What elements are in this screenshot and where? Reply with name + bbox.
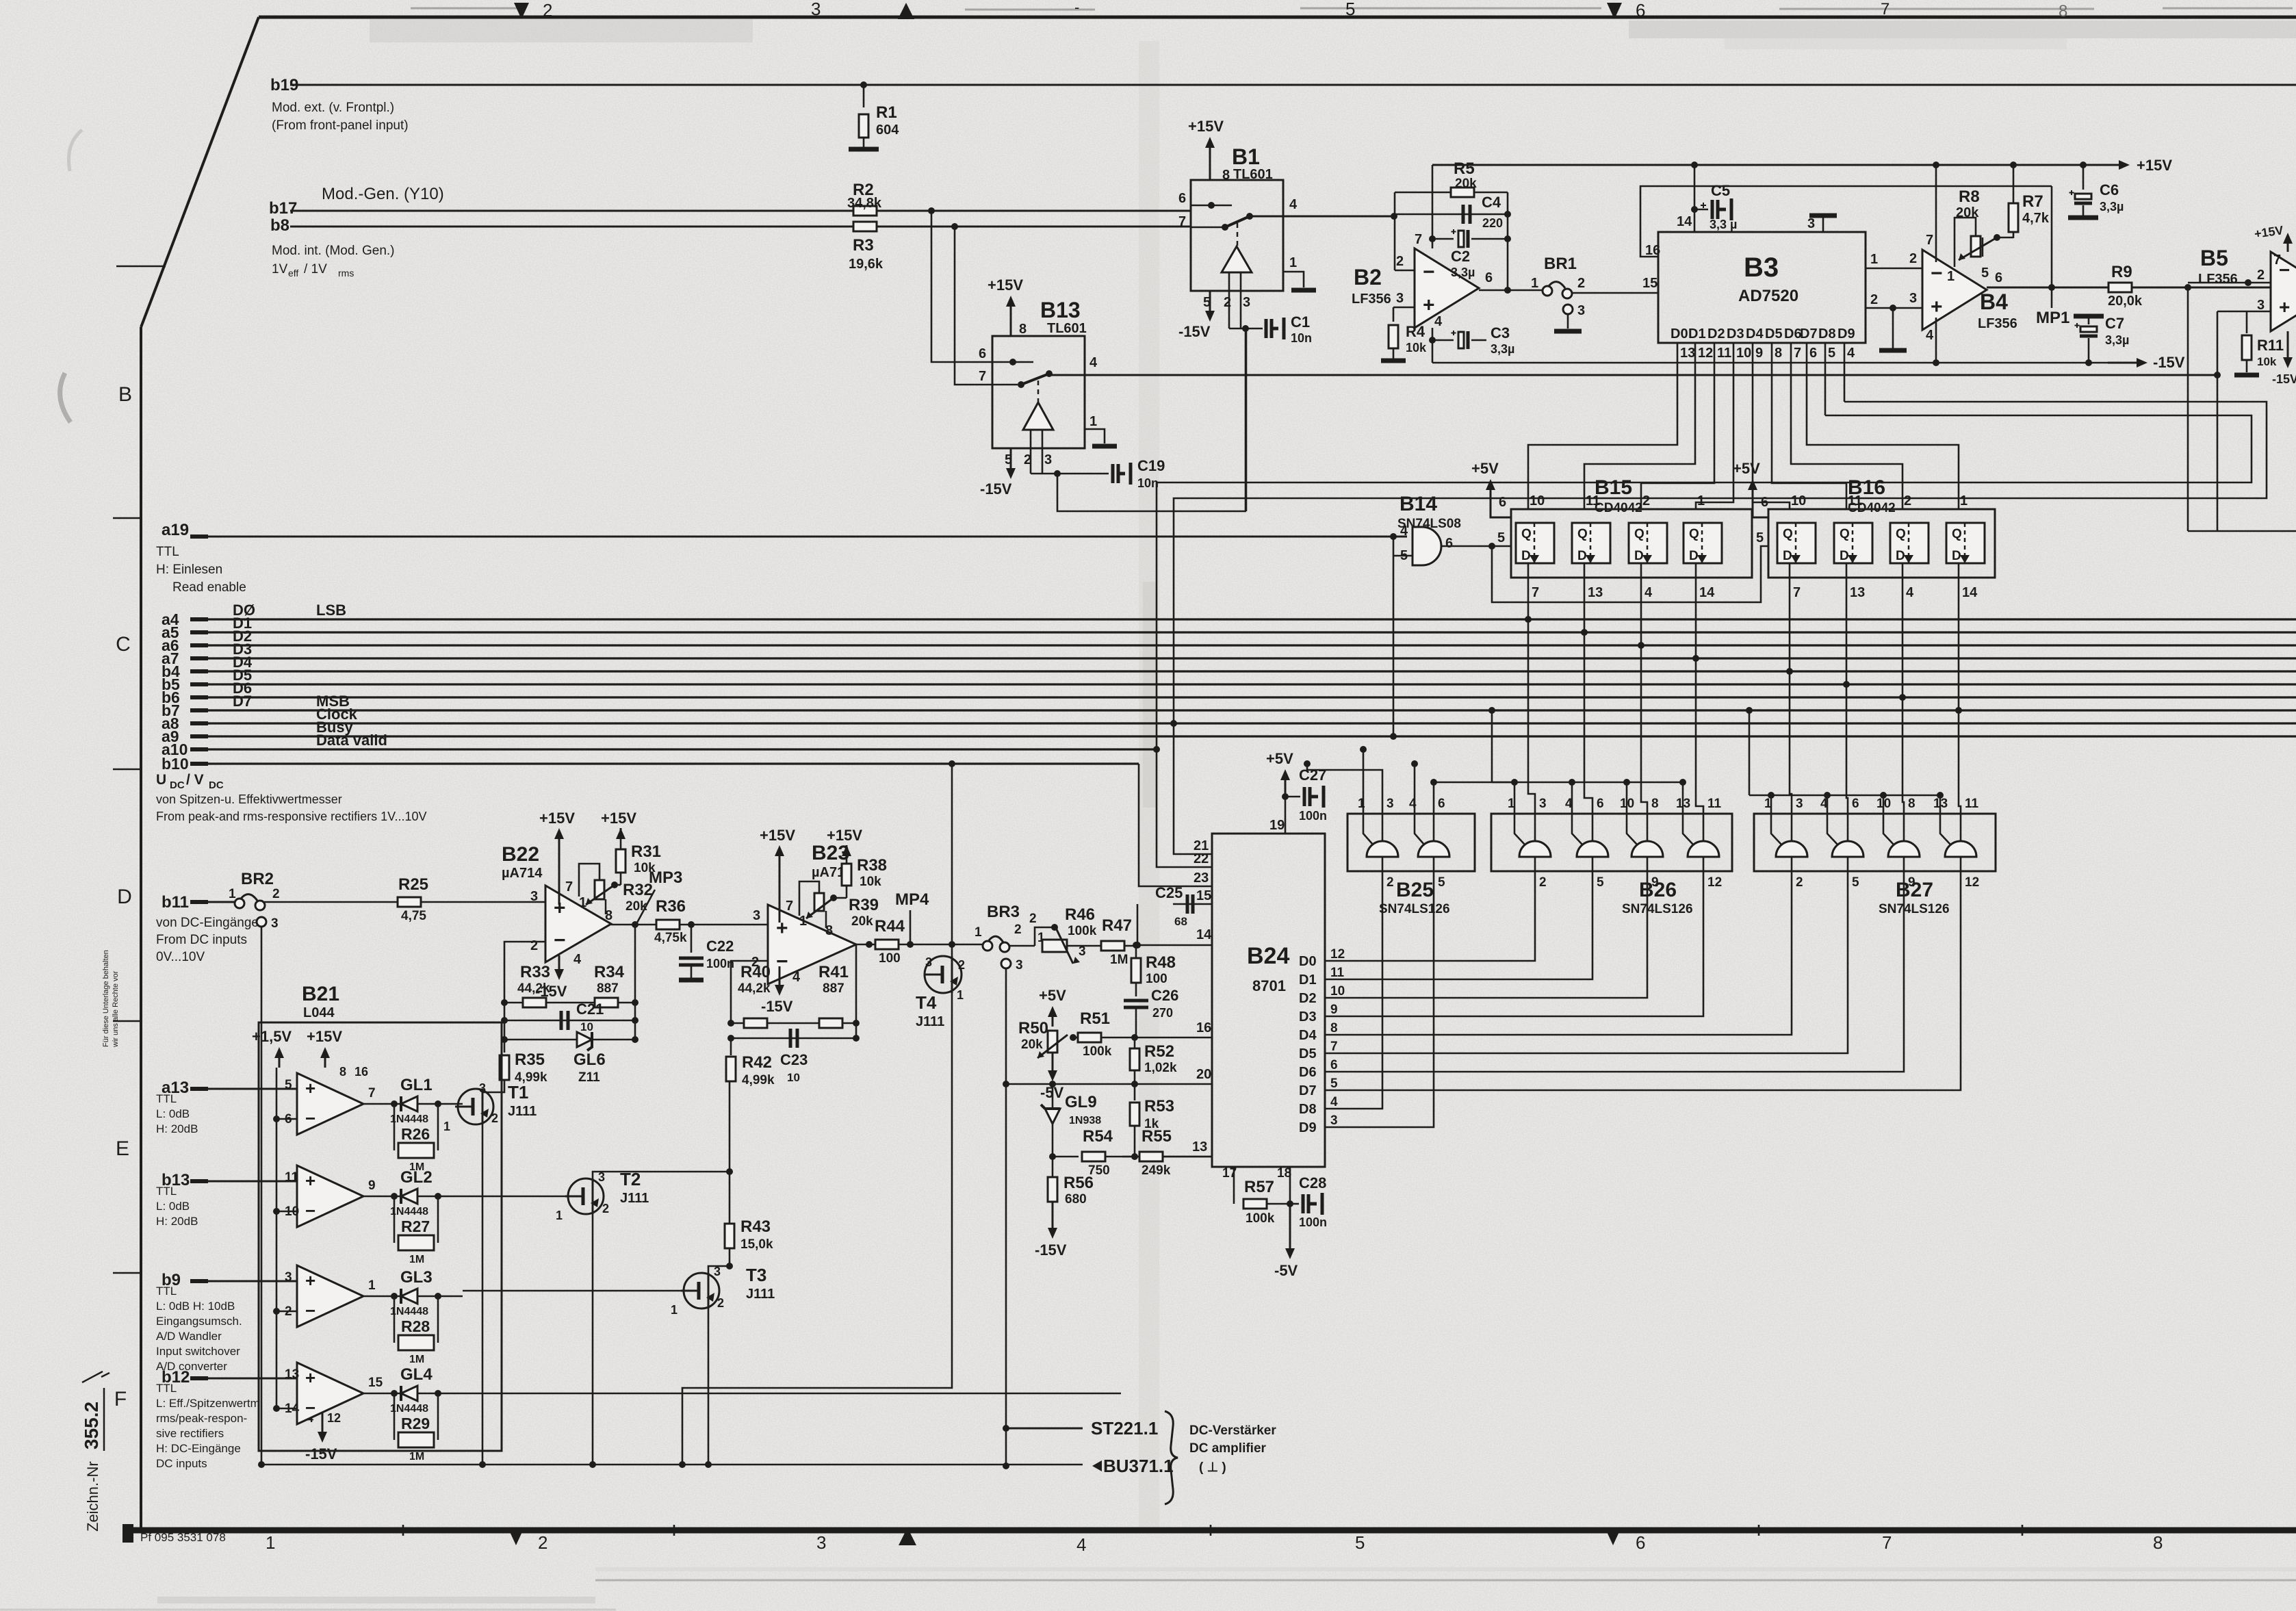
ground R4 (1393, 348, 1395, 359)
svg-text:+5V: +5V (1471, 460, 1499, 477)
svg-text:L: Eff./Spitzenwertm.: L: Eff./Spitzenwertm. (156, 1397, 263, 1410)
wire bus b7 (190, 709, 2296, 711)
bottom tick (1758, 1525, 1760, 1536)
svg-text:R28: R28 (401, 1317, 430, 1335)
resistor R44 (875, 940, 899, 949)
wire B3 D5 to B16 latch (1772, 375, 1846, 509)
svg-text:Read enable: Read enable (172, 580, 246, 595)
resistor R54 (1049, 1153, 1056, 1160)
capacitor C7 (2074, 314, 2104, 319)
capacitor C1 (1266, 319, 1272, 338)
svg-text:R9: R9 (2111, 263, 2132, 281)
svg-text:2: 2 (1796, 875, 1803, 890)
svg-text:D: D (1840, 549, 1849, 563)
svg-text:+: + (305, 1170, 315, 1191)
svg-text:7: 7 (368, 1086, 376, 1100)
junction C1 node (1242, 325, 1249, 332)
svg-text:4,75: 4,75 (401, 909, 426, 923)
svg-text:11: 11 (1330, 966, 1345, 980)
svg-text:1: 1 (443, 1120, 450, 1133)
top col marker 6 (1607, 3, 1622, 19)
wire b8 (290, 226, 1191, 228)
svg-text:12: 12 (1707, 875, 1722, 890)
svg-text:+: + (776, 917, 788, 940)
B23 output wire (856, 944, 986, 946)
svg-text:7: 7 (1926, 233, 1933, 248)
wire T3 gate from GL3 (463, 1290, 684, 1292)
svg-text:DC: DC (170, 779, 185, 791)
svg-text:6: 6 (1485, 270, 1493, 285)
svg-text:D9: D9 (1837, 326, 1855, 341)
op-amp switch B13 (992, 336, 1085, 448)
svg-text:7: 7 (786, 899, 793, 914)
svg-text:−: − (1931, 262, 1943, 285)
svg-text:D8: D8 (1818, 326, 1836, 341)
svg-text:D7: D7 (1299, 1083, 1317, 1098)
wire bottom collector (259, 1464, 1083, 1466)
svg-text:6: 6 (1438, 797, 1445, 811)
B5 pin4 (2287, 331, 2289, 360)
wire T3 source down (708, 1309, 710, 1465)
svg-text:1N4448: 1N4448 (390, 1113, 428, 1125)
svg-text:C25: C25 (1155, 884, 1183, 901)
svg-text:L044: L044 (303, 1005, 335, 1020)
svg-text:6: 6 (1852, 797, 1859, 811)
wire enable stub B27 (1883, 795, 1885, 814)
wire ST221 stub (1006, 1428, 1083, 1430)
B23 feedback left vertical (731, 961, 768, 1023)
svg-text:R47: R47 (1102, 916, 1132, 935)
svg-text:6: 6 (1636, 1532, 1645, 1553)
svg-text:1: 1 (368, 1278, 376, 1293)
row tick B/C (113, 517, 141, 519)
transistor T2 (568, 1178, 604, 1214)
svg-text:8: 8 (2153, 1532, 2163, 1553)
svg-text:4: 4 (1434, 314, 1443, 329)
svg-text:From peak-and rms-responsive r: From peak-and rms-responsive rectifiers … (156, 810, 427, 823)
svg-text:B14: B14 (1399, 493, 1437, 515)
svg-text:Q: Q (1577, 527, 1588, 541)
B25 gate 2 center input (1433, 814, 1435, 841)
svg-text:3: 3 (1243, 295, 1250, 310)
wire b13 minus input (276, 1211, 297, 1213)
svg-text:1: 1 (556, 1209, 563, 1222)
wire b17 to B13 pin6 (931, 211, 992, 362)
svg-text:T4: T4 (916, 992, 937, 1013)
svg-text:3: 3 (1796, 797, 1803, 811)
capacitor C5 (1694, 209, 1708, 211)
capacitor C28 (1290, 1203, 1299, 1205)
svg-text:D9: D9 (1299, 1120, 1317, 1135)
svg-text:887: 887 (823, 981, 844, 996)
B15 latch 1 output to bus (1527, 563, 1530, 619)
wire C1 node down to link (1245, 328, 1247, 511)
svg-text:3: 3 (1807, 216, 1815, 231)
svg-text:D: D (1689, 549, 1699, 563)
svg-text:+5V: +5V (1039, 987, 1066, 1004)
B27 gate 3 center input (1903, 814, 1905, 841)
B15 latch 3 output to bus (1640, 563, 1642, 645)
svg-text:TTL: TTL (156, 1382, 177, 1395)
svg-text:-15V: -15V (980, 480, 1012, 498)
svg-text:4: 4 (792, 970, 801, 985)
svg-text:DC inputs: DC inputs (156, 1457, 207, 1470)
wire bus a9 (190, 735, 2296, 737)
resistor R48 (1135, 945, 1137, 957)
svg-text:0V...10V: 0V...10V (156, 950, 205, 964)
svg-text:T1: T1 (508, 1082, 528, 1103)
svg-text:4,7k: 4,7k (2022, 211, 2050, 226)
B25 gate 2 output (1433, 857, 1435, 871)
wire b8 to B13 pin7 (955, 227, 1018, 385)
svg-text:R36: R36 (656, 897, 686, 916)
svg-text:20,0k: 20,0k (2108, 294, 2143, 309)
svg-text:1M: 1M (409, 1451, 424, 1462)
capacitor C4 (1463, 205, 1470, 224)
wire GL4 line up join (1120, 1315, 1122, 1393)
svg-text:20k: 20k (1455, 177, 1477, 191)
B26 gate 2 center input (1592, 814, 1594, 841)
svg-text:7: 7 (1882, 1532, 1892, 1553)
wire b19 (290, 84, 2296, 86)
svg-text:6: 6 (1636, 0, 1645, 21)
wire BR2-3 down to bottom rail (261, 927, 263, 1465)
svg-text:D: D (117, 886, 132, 908)
svg-text:B22: B22 (502, 843, 539, 866)
wire T3 drain (708, 1266, 730, 1275)
capacitor C26 (1135, 983, 1137, 996)
svg-text:wir uns alle Rechte vor: wir uns alle Rechte vor (112, 970, 120, 1048)
svg-text:14: 14 (1962, 585, 1978, 600)
wire B16 latch 2 to B27 gate 2 (1846, 684, 1848, 814)
B27 gate 3 output (1903, 857, 1905, 871)
svg-text:+: + (305, 1078, 315, 1098)
svg-text:1N4448: 1N4448 (390, 1306, 428, 1317)
svg-text:1M: 1M (409, 1354, 424, 1365)
svg-text:1: 1 (1089, 414, 1097, 429)
wire B1 pins to C1 (1229, 328, 1263, 330)
resistor R52 (1134, 1038, 1136, 1048)
svg-text:LSB: LSB (316, 602, 346, 619)
B25 buffer gate 1 (1367, 841, 1398, 857)
bottom col marker 4 triangle (899, 1528, 916, 1545)
svg-text:3,3µ: 3,3µ (1451, 266, 1475, 279)
svg-text:22: 22 (1194, 851, 1209, 866)
wire bus b5 (190, 683, 2296, 685)
svg-text:7: 7 (2273, 253, 2281, 268)
wire R35 to T1 (482, 1080, 504, 1092)
op-amp B2 (1415, 248, 1479, 328)
svg-text:+15V: +15V (988, 276, 1023, 294)
svg-text:887: 887 (597, 981, 619, 996)
wire D8 long route (1157, 415, 2252, 867)
svg-text:8: 8 (2059, 2, 2067, 21)
svg-text:-: - (1074, 0, 1079, 16)
B16 latch 4 output to bus (1958, 563, 1960, 710)
wire BR3-3 down (1005, 968, 1007, 1466)
svg-text:10: 10 (1736, 346, 1751, 361)
svg-text:23: 23 (1194, 871, 1209, 886)
capacitor C21 (504, 1020, 635, 1022)
junction ST221 node (1003, 1425, 1009, 1432)
svg-text:B21: B21 (302, 983, 339, 1005)
svg-text:D: D (1952, 549, 1961, 563)
buffer box B25 (1347, 814, 1475, 871)
svg-text:6: 6 (1178, 191, 1186, 206)
resistor R55 (1139, 1152, 1163, 1161)
svg-text:R38: R38 (857, 856, 887, 875)
svg-text:B5: B5 (2200, 246, 2228, 270)
svg-text:D: D (1896, 549, 1905, 563)
B27 gate 1 output (1791, 857, 1793, 871)
svg-text:B1: B1 (1232, 144, 1260, 169)
wire B3 D2 to B15 latch (1641, 375, 1714, 509)
svg-text:3,3µ: 3,3µ (2105, 333, 2129, 347)
svg-text:13: 13 (285, 1367, 299, 1382)
svg-text:SN74LS126: SN74LS126 (1879, 902, 1950, 916)
svg-text:Q: Q (1840, 527, 1850, 541)
B25 gate 1 input jog (1363, 814, 1373, 845)
svg-text:C26: C26 (1151, 987, 1178, 1004)
svg-text:C1: C1 (1291, 313, 1310, 331)
svg-text:12: 12 (1698, 346, 1713, 361)
wire enable rail B27 (1749, 795, 1942, 797)
svg-text:3: 3 (811, 0, 821, 19)
svg-text:R43: R43 (740, 1217, 771, 1236)
wire C25 node vertical (1137, 904, 1139, 945)
svg-text:4: 4 (1644, 585, 1653, 600)
svg-text:14: 14 (1196, 927, 1212, 942)
wire B3 D1 to B15 latch (1584, 375, 1695, 509)
svg-text:J111: J111 (746, 1287, 775, 1302)
wire b11 to B22 (264, 901, 545, 903)
resistor R56 (1052, 1157, 1054, 1177)
svg-text:2: 2 (2257, 268, 2265, 283)
svg-text:F: F (114, 1388, 127, 1410)
power +15V B13 pin8 (1010, 304, 1012, 336)
B27 buffer gate 3 (1888, 841, 1920, 857)
svg-text:+15V: +15V (827, 827, 862, 844)
svg-text:100n: 100n (1299, 809, 1327, 823)
B16 latch cell 1 (1777, 523, 1816, 563)
svg-text:680: 680 (1065, 1192, 1087, 1207)
svg-text:D5: D5 (1765, 326, 1783, 341)
svg-text:3: 3 (530, 889, 538, 904)
buffer box B26 (1491, 814, 1732, 871)
svg-text:R7: R7 (2022, 192, 2043, 211)
junction C19 node (1054, 470, 1061, 477)
svg-text:19: 19 (1269, 818, 1285, 833)
B22 feedback left vertical (504, 942, 545, 1040)
wire T2 gate from GL2 (463, 1196, 568, 1198)
svg-text:10k: 10k (2257, 355, 2277, 368)
comparator a13 amp (297, 1073, 363, 1135)
svg-text:R54: R54 (1083, 1127, 1113, 1146)
junction b8 to B13 (951, 223, 958, 230)
svg-text:D4: D4 (1299, 1028, 1317, 1043)
svg-text:BR1: BR1 (1544, 255, 1577, 273)
svg-text:C4: C4 (1482, 194, 1501, 211)
svg-text:D: D (1577, 549, 1587, 563)
svg-text:3: 3 (1044, 452, 1052, 467)
svg-text:−: − (305, 1300, 315, 1321)
resistor R1 (863, 85, 865, 107)
svg-text:15: 15 (1642, 276, 1657, 291)
resistor R43 (725, 1224, 734, 1248)
comparator b12 amp (297, 1363, 363, 1424)
B25 gate 1 output (1382, 857, 1384, 871)
junction a8 on pin21 riser (1170, 720, 1177, 727)
svg-text:L: 0dB: L: 0dB (156, 1107, 190, 1120)
svg-text:LF356: LF356 (1352, 292, 1391, 307)
wire enable stub B27 (1827, 795, 1829, 814)
svg-text:B24: B24 (1247, 943, 1289, 969)
svg-text:Q: Q (1689, 527, 1699, 541)
svg-text:604: 604 (876, 123, 899, 138)
svg-text:2: 2 (1904, 493, 1911, 508)
svg-text:8: 8 (1908, 797, 1916, 811)
svg-text:C27: C27 (1299, 766, 1326, 784)
B27 gate 2 input jog (1827, 814, 1837, 845)
bottom col marker 6 (1605, 1528, 1621, 1545)
svg-text:8: 8 (1651, 797, 1659, 811)
svg-text:10: 10 (1791, 493, 1806, 508)
feedback top wire R5 (1395, 192, 1508, 194)
svg-text:Data valid: Data valid (316, 732, 387, 749)
BR2 pin 3 (257, 917, 266, 927)
wire enable rail B26 (1492, 782, 1685, 784)
svg-text:C2: C2 (1451, 248, 1470, 265)
svg-text:R34: R34 (594, 963, 625, 981)
junction b19/R1 (860, 81, 867, 88)
row tick E/F (113, 1272, 141, 1274)
transistor T1 (458, 1089, 493, 1124)
B27 gate 4 center input (1960, 814, 1962, 841)
svg-text:TL601: TL601 (1047, 321, 1087, 336)
B25 gate 2 input jog (1415, 814, 1424, 845)
B26 gate 4 center input (1703, 814, 1705, 841)
svg-text:Zeichn.-Nr: Zeichn.-Nr (84, 1461, 101, 1532)
B25 gate 1 center input (1382, 814, 1384, 841)
BR1 pin 3 (1563, 305, 1573, 314)
svg-text:R4: R4 (1406, 323, 1426, 340)
svg-text:8: 8 (1330, 1021, 1338, 1035)
svg-text:1: 1 (1870, 252, 1878, 267)
svg-text:20k: 20k (1956, 205, 1979, 220)
svg-text:L: 0dB: L: 0dB (156, 1200, 190, 1213)
bottom col marker 2 (508, 1528, 524, 1545)
svg-text:10n: 10n (1291, 331, 1312, 345)
wire b10 to B24 pin23 (1139, 764, 1212, 886)
svg-text:+5V: +5V (1733, 460, 1760, 477)
svg-text:von DC-Eingängen: von DC-Eingängen (156, 916, 266, 930)
svg-text:6: 6 (1597, 797, 1604, 811)
svg-text:2: 2 (1386, 875, 1394, 890)
row tick A/B (116, 266, 166, 268)
svg-text:7: 7 (1532, 585, 1539, 600)
bottom tick (673, 1525, 675, 1536)
svg-text:R29: R29 (401, 1415, 430, 1432)
svg-text:-5V: -5V (1274, 1262, 1298, 1279)
bottom tick (2022, 1525, 2024, 1536)
sheet top border (259, 16, 2296, 19)
svg-text:−: − (1423, 261, 1435, 283)
wire bus b10 (190, 762, 1139, 764)
comparator b13 amp (297, 1165, 363, 1227)
svg-text:R53: R53 (1144, 1097, 1174, 1116)
wire BR3-2 to R46 (1009, 945, 1035, 947)
svg-text:+15V: +15V (539, 810, 575, 827)
svg-text:b8: b8 (270, 216, 289, 235)
svg-text:16: 16 (354, 1065, 368, 1079)
diode GL2 (363, 1196, 463, 1198)
svg-text:1: 1 (579, 895, 586, 910)
ADC B24 (1212, 834, 1325, 1167)
svg-text:Q: Q (1896, 527, 1906, 541)
feedback right vertical (1507, 192, 1509, 290)
svg-text:rms: rms (338, 268, 354, 279)
svg-text:LF356: LF356 (2198, 272, 2238, 287)
svg-text:4: 4 (1926, 328, 1934, 343)
svg-text:5: 5 (1852, 875, 1859, 890)
wire a13 minus input (276, 1118, 297, 1120)
svg-text:13: 13 (1192, 1139, 1207, 1155)
svg-text:sive rectifiers: sive rectifiers (156, 1427, 224, 1440)
power +5V B15 (1490, 487, 1492, 509)
B21 minus bus vertical (276, 1068, 278, 1408)
wire B2 output (1479, 289, 1543, 292)
svg-text:3: 3 (925, 955, 932, 969)
svg-text:MP3: MP3 (649, 868, 682, 887)
svg-text:Q: Q (1783, 527, 1793, 541)
svg-text:( ⊥ ): ( ⊥ ) (1199, 1460, 1226, 1475)
resistor R29 (394, 1393, 396, 1440)
svg-text:D1: D1 (1299, 972, 1317, 988)
svg-text:+15V: +15V (601, 810, 636, 827)
B27 gate 2 center input (1847, 814, 1849, 841)
svg-text:B15: B15 (1595, 476, 1632, 499)
svg-text:+: + (1423, 294, 1435, 317)
svg-text:4,99k: 4,99k (742, 1073, 775, 1087)
pot R39 (814, 893, 824, 911)
svg-text:SN74LS126: SN74LS126 (1622, 902, 1693, 916)
svg-text:D2: D2 (1299, 991, 1317, 1006)
svg-text:12: 12 (1965, 875, 1979, 890)
wire bus a6 (190, 644, 2296, 646)
svg-text:AD7520: AD7520 (1738, 287, 1798, 305)
svg-text:D: D (1783, 549, 1792, 563)
svg-text:4: 4 (1847, 346, 1855, 361)
svg-text:H: 20dB: H: 20dB (156, 1122, 198, 1135)
svg-text:R3: R3 (853, 236, 874, 255)
power +1,5V B21 (279, 1055, 281, 1068)
B26 gate 1 center input (1534, 814, 1536, 841)
wire enable rail B27 riser (1749, 710, 1751, 795)
wire bus b4 (190, 670, 2296, 672)
wire R42 down to R43 (729, 1081, 731, 1224)
op-amp switch B1 (1191, 180, 1283, 291)
svg-text:b10: b10 (162, 755, 189, 773)
wire B2 minus supply rail -15V (1432, 340, 1434, 363)
resistor R2 (853, 206, 877, 216)
svg-text:2: 2 (1224, 295, 1231, 310)
junction pin20 line (1131, 1081, 1138, 1087)
svg-text:−: − (305, 1397, 315, 1418)
svg-text:8: 8 (1775, 346, 1782, 361)
svg-text:100k: 100k (1083, 1044, 1112, 1059)
svg-text:11: 11 (1965, 797, 1979, 811)
svg-text:C21: C21 (576, 1001, 604, 1018)
